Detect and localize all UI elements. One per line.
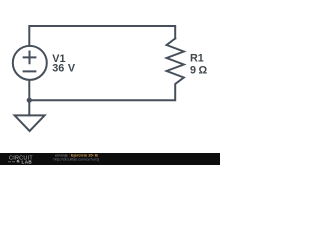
svg-text:36 V: 36 V bbox=[52, 63, 76, 75]
svg-text:http://circuitlab.com/ce7un2j: http://circuitlab.com/ce7un2j bbox=[54, 157, 100, 161]
svg-text:9 Ω: 9 Ω bbox=[190, 64, 208, 76]
svg-text:LAB: LAB bbox=[22, 160, 33, 165]
svg-text:R1: R1 bbox=[190, 52, 204, 64]
